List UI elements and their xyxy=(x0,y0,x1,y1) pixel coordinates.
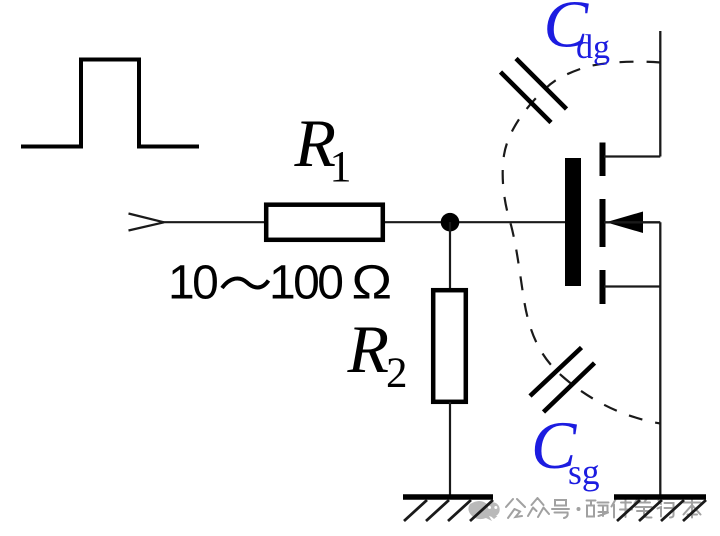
svg-text:10: 10 xyxy=(168,257,217,310)
svg-text:dg: dg xyxy=(576,29,610,66)
svg-text:100: 100 xyxy=(269,257,342,310)
svg-text:1: 1 xyxy=(330,142,352,191)
svg-text:sg: sg xyxy=(568,452,600,492)
svg-text:R: R xyxy=(347,311,390,387)
svg-text:2: 2 xyxy=(386,350,408,397)
svg-text:Ω: Ω xyxy=(352,255,393,308)
